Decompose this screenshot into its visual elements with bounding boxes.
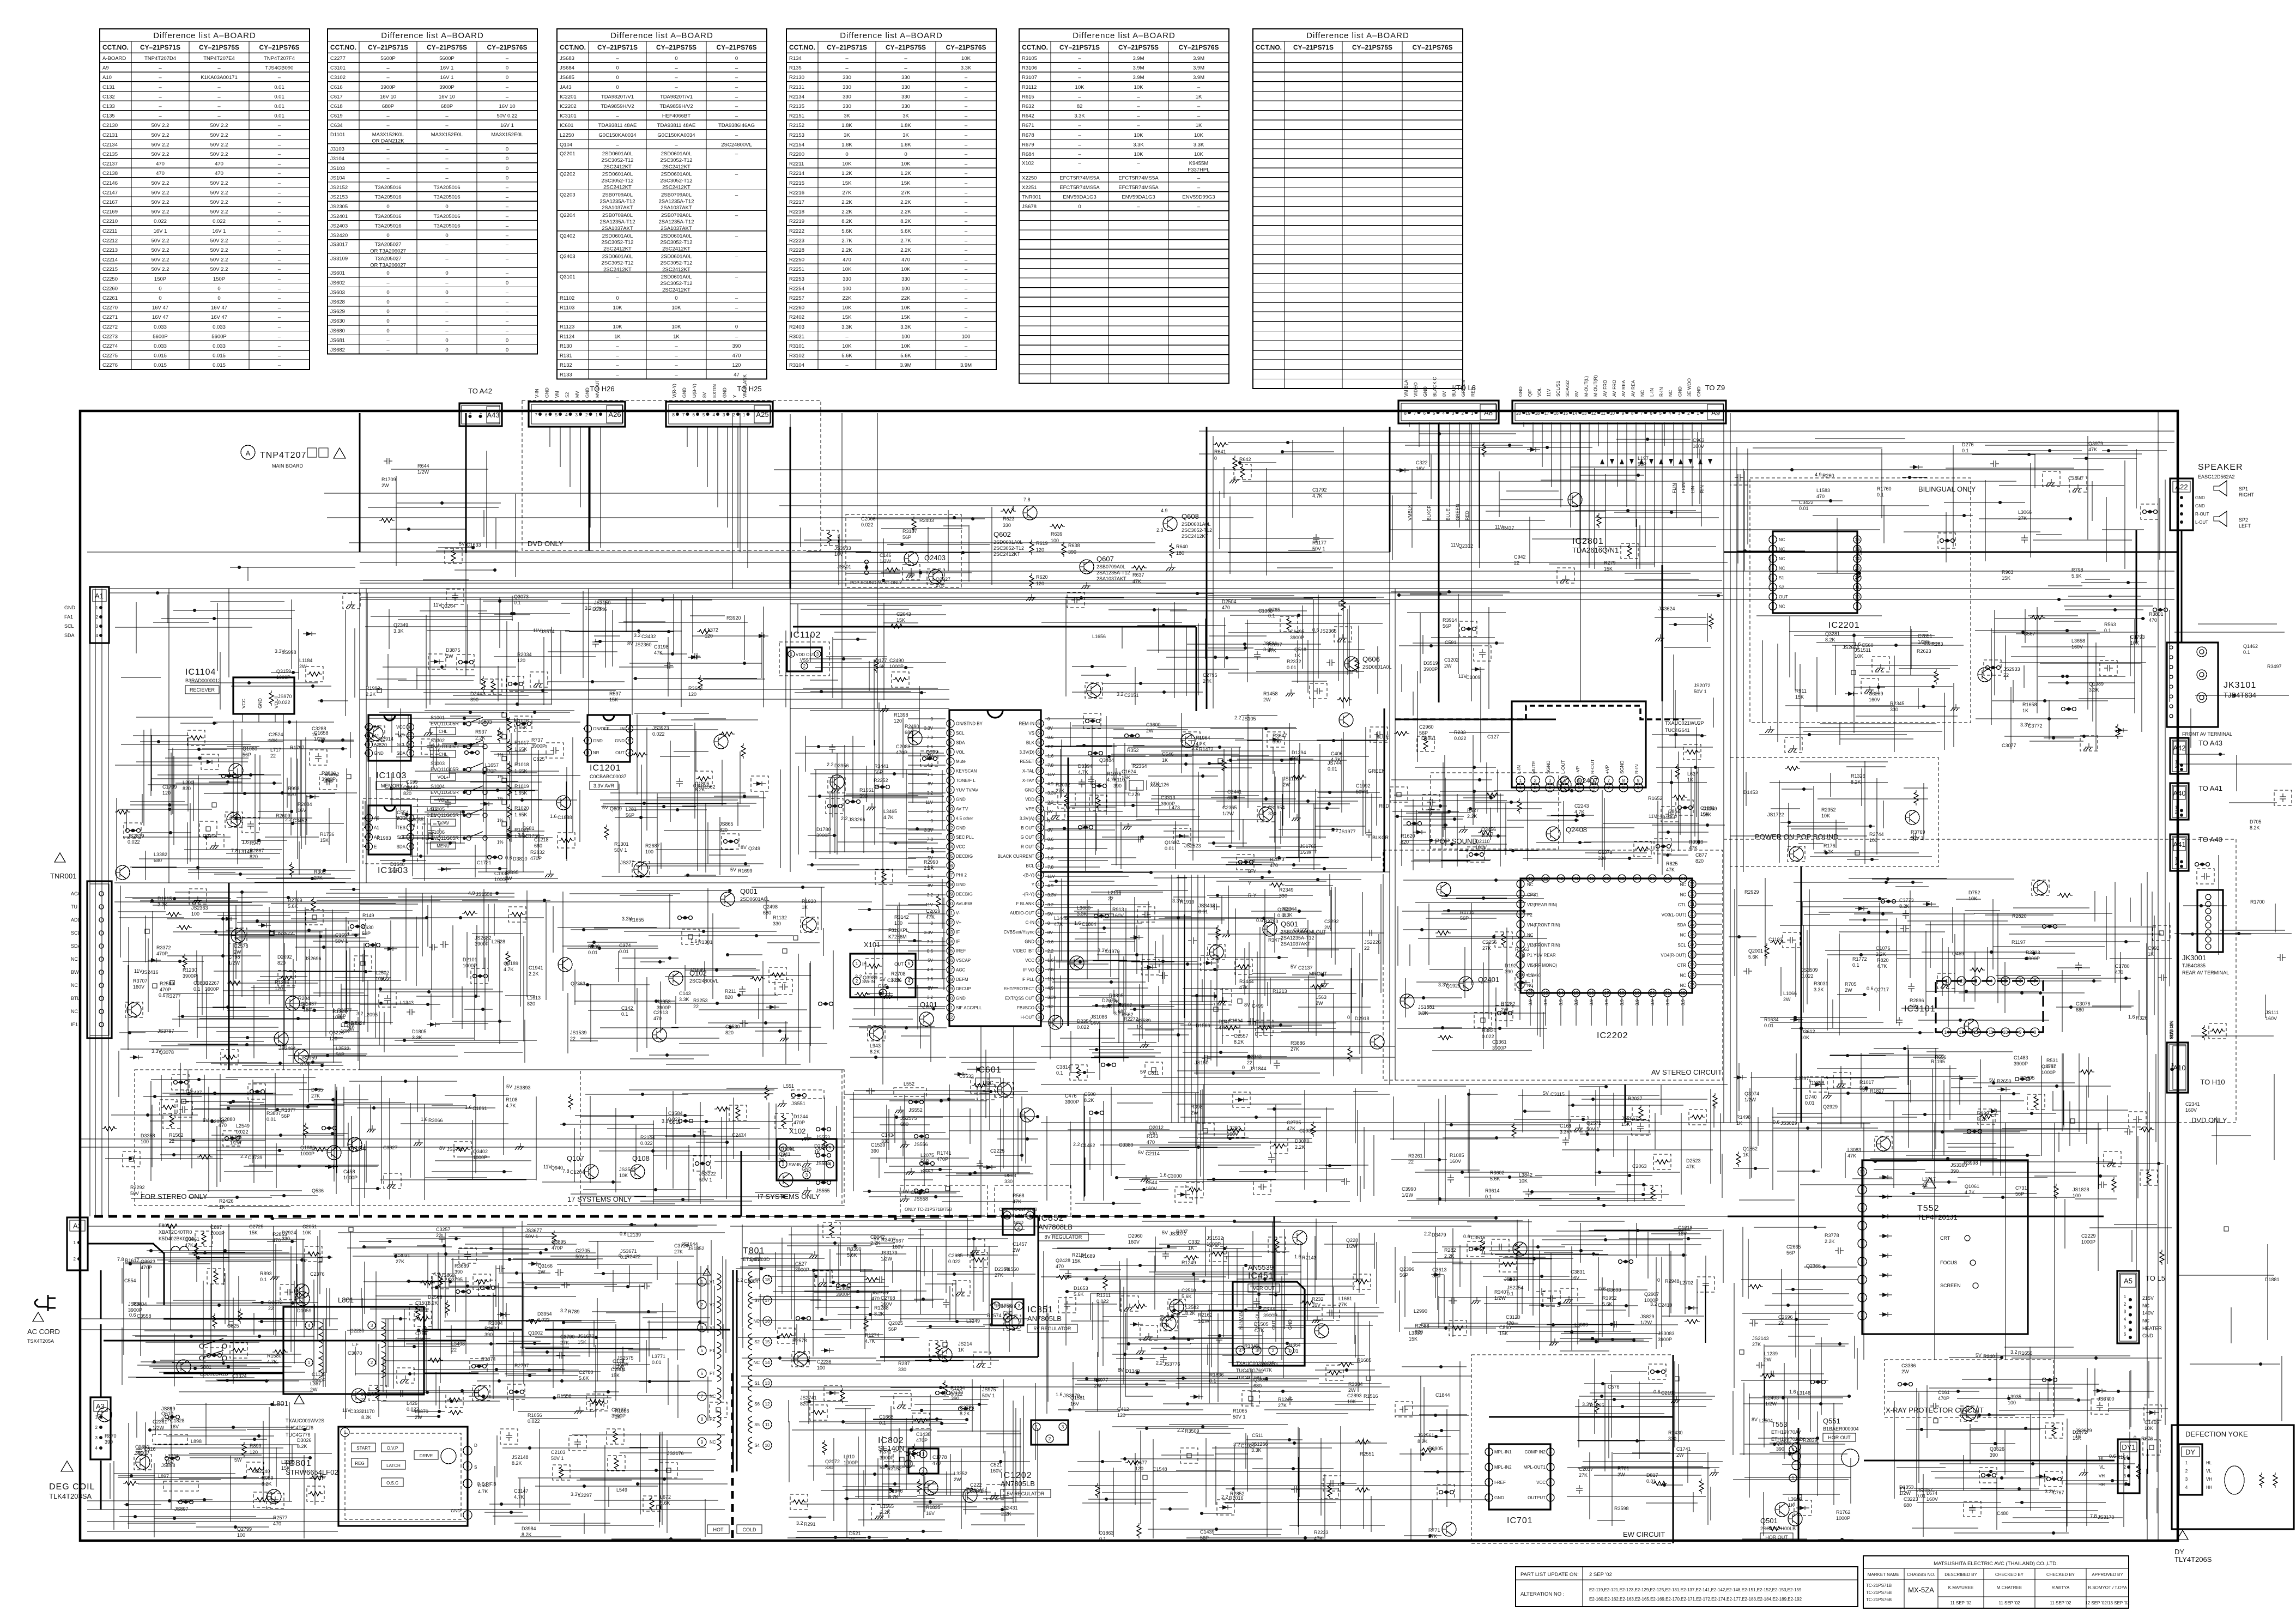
svg-text:S5: S5: [754, 1422, 760, 1427]
svg-text:1: 1: [1488, 1450, 1491, 1455]
svg-text:VI2(REAR RIN): VI2(REAR RIN): [1527, 902, 1558, 907]
svg-text:9: 9: [1637, 778, 1640, 783]
svg-text:R3187: R3187: [902, 529, 917, 534]
svg-text:JS1681: JS1681: [1418, 1004, 1435, 1010]
capacitor C2712: [1326, 659, 1335, 666]
svg-text:Q2203: Q2203: [560, 192, 575, 198]
diode L306: [1845, 692, 1858, 696]
svg-text:DECBIG: DECBIG: [956, 892, 973, 896]
junction dots: [1067, 1221, 1347, 1410]
svg-text:C2213: C2213: [102, 247, 118, 253]
svg-text:Q518: Q518: [1294, 647, 1306, 652]
svg-text:C132: C132: [102, 94, 115, 100]
svg-text:56P: 56P: [1400, 1272, 1408, 1278]
svg-text:0.022: 0.022: [861, 522, 874, 528]
svg-text:R825: R825: [1666, 861, 1678, 866]
svg-text:22: 22: [1681, 991, 1686, 996]
wire: [1041, 1122, 2174, 1123]
wire: [80, 1318, 338, 1319]
dashed outline: [1270, 1138, 1288, 1154]
svg-text:JS953: JS953: [657, 999, 671, 1004]
wire: [1068, 1471, 1471, 1472]
svg-text:27K: 27K: [674, 1249, 683, 1255]
svg-text:7.8: 7.8: [927, 837, 934, 842]
transistor Q435: [908, 731, 922, 745]
svg-text:R737: R737: [531, 737, 543, 743]
svg-text:TUC4G641: TUC4G641: [1665, 728, 1690, 733]
svg-text:2SC2412KT: 2SC2412KT: [603, 246, 632, 252]
wire: [908, 848, 946, 849]
svg-text:47K: 47K: [1239, 985, 1248, 990]
transistor Q905: [1568, 493, 1582, 507]
svg-text:CY–21PS76S: CY–21PS76S: [716, 44, 756, 51]
svg-text:R1177: R1177: [1312, 540, 1326, 546]
svg-text:JS628: JS628: [330, 299, 345, 305]
svg-text:16V 1: 16V 1: [440, 75, 454, 81]
svg-text:1: 1: [467, 1449, 469, 1453]
wire: [1682, 997, 1683, 1026]
diode C844: [2093, 1389, 2106, 1393]
svg-text:0.01: 0.01: [1198, 909, 1208, 914]
capacitor L2986: [866, 1088, 875, 1094]
svg-text:GREEN: GREEN: [1368, 768, 1385, 774]
resistor L1217: [741, 743, 746, 759]
svg-text:50V 2.2: 50V 2.2: [210, 180, 228, 186]
svg-text:5V: 5V: [1543, 1090, 1549, 1096]
svg-text:C2365: C2365: [1222, 805, 1237, 810]
svg-text:27K: 27K: [560, 1340, 569, 1346]
svg-text:8: 8: [701, 1417, 704, 1422]
svg-text:330: 330: [1004, 1179, 1013, 1184]
wire: [697, 427, 698, 467]
svg-text:2W: 2W: [1283, 782, 1291, 787]
svg-text:2: 2: [1960, 979, 1963, 984]
svg-text:–: –: [735, 274, 738, 280]
svg-text:8: 8: [1404, 411, 1407, 416]
transistor Q203: [924, 1481, 938, 1495]
svg-text:2.2K: 2.2K: [841, 247, 852, 253]
svg-text:–: –: [278, 343, 281, 349]
svg-text:EFCT5R74MS5A: EFCT5R74MS5A: [1059, 175, 1100, 181]
transistor Q472: [98, 1408, 112, 1422]
svg-text:JS214: JS214: [958, 1341, 972, 1347]
svg-text:VL: VL: [2206, 1469, 2212, 1474]
svg-text:K.MAYUREE: K.MAYUREE: [1948, 1585, 1974, 1590]
svg-text:4.5 other: 4.5 other: [956, 816, 973, 821]
svg-text:10: 10: [2003, 1030, 2008, 1035]
svg-text:CHL: CHL: [439, 729, 448, 734]
svg-text:R2588: R2588: [1415, 1323, 1429, 1329]
wire: [1045, 839, 1144, 840]
transistor Q762: [1049, 1015, 1063, 1029]
svg-text:C222: C222: [970, 1482, 982, 1488]
svg-text:19: 19: [1525, 411, 1530, 416]
dashed outline: [207, 1269, 225, 1284]
svg-text:TDA2616Q/N1: TDA2616Q/N1: [1572, 546, 1619, 554]
capacitor R3526: [641, 1283, 650, 1289]
svg-text:PHI 2: PHI 2: [956, 873, 967, 878]
svg-text:50V 1: 50V 1: [1911, 835, 1924, 841]
junction dots: [1755, 1049, 2057, 1197]
svg-text:R3614: R3614: [1485, 1188, 1500, 1193]
svg-text:1.6: 1.6: [1047, 754, 1054, 759]
dashed outline: [1253, 1179, 1271, 1195]
jumper C842: [837, 1284, 851, 1288]
svg-text:0.1: 0.1: [514, 600, 521, 605]
svg-text:AGC: AGC: [956, 967, 966, 972]
wire: [1697, 954, 1722, 955]
svg-text:16: 16: [1589, 991, 1594, 996]
svg-text:R2349: R2349: [1279, 887, 1294, 893]
svg-text:C142: C142: [621, 1005, 633, 1011]
dashed outline: [1395, 1402, 1413, 1417]
wire: [1449, 422, 1450, 507]
svg-text:3.9: 3.9: [1589, 999, 1594, 1005]
svg-text:C2578: C2578: [234, 943, 249, 949]
svg-text:R2820: R2820: [2012, 913, 2027, 919]
svg-text:–: –: [965, 94, 968, 100]
capacitor JS2409: [1547, 1295, 1556, 1302]
svg-text:7.8: 7.8: [231, 848, 238, 853]
svg-text:2: 2: [1534, 778, 1537, 783]
wire: [360, 689, 949, 690]
svg-text:R642: R642: [1022, 113, 1034, 119]
dashed outline: [920, 751, 938, 766]
svg-text:ADD: ADD: [71, 917, 82, 923]
dashed outline: [2274, 790, 2292, 805]
svg-text:R164: R164: [2117, 1455, 2129, 1460]
svg-text:EFCT5R74MS5A: EFCT5R74MS5A: [1118, 185, 1159, 191]
junction dots: [1113, 1109, 1330, 1203]
svg-text:JS2072: JS2072: [1694, 683, 1711, 688]
svg-text:15K: 15K: [1499, 1331, 1508, 1336]
svg-text:2SB0709A0L: 2SB0709A0L: [661, 213, 692, 219]
svg-text:L200: L200: [183, 780, 193, 785]
wire: [1013, 1026, 1014, 1277]
wire: [506, 621, 507, 883]
junction dots: [1774, 1227, 1849, 1540]
svg-text:470P: 470P: [937, 1156, 948, 1162]
svg-text:3.3K: 3.3K: [1194, 142, 1204, 148]
svg-text:2SC3052-T12: 2SC3052-T12: [660, 240, 692, 246]
svg-text:2SA1037AKT: 2SA1037AKT: [661, 205, 692, 211]
junction dots: [1739, 879, 2126, 1033]
diode C2546: [438, 867, 451, 871]
svg-text:JS2363: JS2363: [191, 905, 208, 911]
dashed outline: [769, 967, 786, 983]
svg-text:A2: A2: [73, 1222, 82, 1230]
svg-text:GND: GND: [2195, 495, 2205, 500]
svg-text:6: 6: [545, 413, 548, 417]
wire: [1606, 997, 1607, 1026]
dashed outline: [1459, 621, 1477, 637]
svg-text:0.1: 0.1: [1268, 613, 1275, 619]
svg-text:C2913: C2913: [653, 1010, 668, 1015]
svg-text:C3422: C3422: [1799, 500, 1814, 505]
svg-text:R2211: R2211: [789, 161, 804, 167]
svg-text:4: 4: [2185, 1485, 2188, 1490]
ground: [1765, 726, 1774, 733]
svg-text:R3142: R3142: [894, 914, 909, 920]
svg-text:18: 18: [1620, 991, 1625, 996]
svg-text:3.3V: 3.3V: [1047, 995, 1057, 1000]
capacitor R2891: [1428, 806, 1435, 815]
svg-text:-VP: -VP: [1575, 766, 1580, 774]
svg-text:1.6: 1.6: [1160, 1172, 1167, 1178]
svg-text:Q3923: Q3923: [141, 1259, 155, 1264]
board id label TNP4T207: [241, 445, 346, 469]
svg-text:0.6: 0.6: [1047, 837, 1054, 842]
svg-text:3: 3: [1772, 556, 1774, 561]
svg-text:3.2: 3.2: [634, 633, 641, 638]
svg-text:C1076: C1076: [1876, 946, 1891, 951]
svg-text:L1613: L1613: [527, 995, 541, 1001]
svg-text:R1018: R1018: [514, 762, 529, 767]
svg-text:L1184: L1184: [299, 658, 312, 663]
capacitor C2431: [1287, 1396, 1293, 1405]
svg-text:Difference list A–BOARD: Difference list A–BOARD: [153, 31, 256, 40]
ground: [1140, 1041, 1149, 1048]
svg-text:2SA1235A-T12: 2SA1235A-T12: [600, 219, 635, 225]
wire: [1045, 978, 1119, 979]
transistor Q501 hor drive: [1760, 1502, 1796, 1541]
svg-text:C3070: C3070: [348, 1350, 362, 1356]
dashed outline: [2027, 1094, 2045, 1110]
svg-text:3.9M: 3.9M: [1132, 65, 1144, 71]
svg-text:B-Y: B-Y: [1248, 869, 1256, 874]
dashed outline: [558, 833, 575, 848]
svg-text:R1342: R1342: [1244, 1343, 1259, 1349]
svg-text:4: 4: [628, 750, 631, 755]
svg-text:JS557: JS557: [919, 1169, 934, 1174]
svg-text:JS105: JS105: [1242, 716, 1256, 722]
svg-text:2W: 2W: [538, 1269, 546, 1275]
svg-text:5: 5: [829, 1146, 832, 1150]
wire: [1045, 997, 1112, 998]
svg-text:–: –: [616, 56, 619, 62]
svg-text:R798: R798: [2071, 567, 2083, 573]
svg-text:R632: R632: [1022, 104, 1034, 110]
svg-text:L2502: L2502: [375, 970, 389, 975]
wire: [908, 857, 946, 858]
dashed outline: [1173, 828, 1191, 844]
svg-text:C1938: C1938: [494, 871, 509, 876]
svg-text:1: 1: [2171, 1063, 2174, 1068]
svg-text:120: 120: [732, 362, 741, 368]
svg-text:0: 0: [616, 295, 619, 301]
junction dots: [1446, 1218, 1688, 1342]
test point: [716, 1408, 720, 1412]
svg-text:1K: 1K: [1736, 1120, 1742, 1126]
svg-text:15: 15: [948, 854, 953, 859]
svg-text:CY–21PS71S: CY–21PS71S: [140, 44, 180, 51]
svg-text:16V: 16V: [1312, 1302, 1320, 1308]
svg-text:10K: 10K: [2144, 1426, 2153, 1431]
svg-text:1.6: 1.6: [440, 1276, 447, 1281]
svg-text:0.01: 0.01: [2046, 1064, 2056, 1069]
junction dots: [159, 722, 343, 878]
svg-text:X-TAL: X-TAL: [1022, 769, 1035, 774]
wire: [1045, 941, 1135, 942]
jumper C1178: [2043, 925, 2057, 929]
svg-text:R3807: R3807: [266, 1111, 281, 1116]
svg-text:R1983: R1983: [377, 835, 391, 841]
svg-text:2: 2: [371, 1360, 373, 1365]
svg-text:R-IN: R-IN: [1658, 387, 1664, 397]
svg-text:C992: C992: [2148, 946, 2160, 951]
svg-text:3.3V AVR: 3.3V AVR: [593, 783, 615, 789]
svg-text:–: –: [616, 274, 619, 280]
wire: [741, 1386, 1390, 1387]
svg-text:1/2W: 1/2W: [1300, 850, 1312, 855]
jumper R2280: [875, 785, 890, 789]
svg-text:1000P: 1000P: [312, 1378, 326, 1383]
svg-text:R2215: R2215: [789, 180, 804, 186]
svg-text:60: 60: [1038, 759, 1043, 764]
svg-text:R1656: R1656: [2018, 1350, 2033, 1356]
wire: [1471, 423, 1472, 701]
dashed outline: [893, 1452, 911, 1467]
dashed outline: [1872, 657, 1889, 672]
wire: [677, 426, 678, 427]
svg-text:3.2: 3.2: [927, 995, 934, 1000]
svg-text:–: –: [159, 94, 162, 100]
svg-text:CHL: CHL: [439, 752, 448, 757]
wire: [542, 1088, 842, 1204]
svg-text:11V: 11V: [925, 902, 933, 907]
svg-text:3900P: 3900P: [475, 941, 489, 947]
resistor JS111: [864, 1316, 868, 1331]
svg-text:2 SEP '02: 2 SEP '02: [1589, 1572, 1612, 1578]
diode Q2926: [427, 1022, 440, 1027]
svg-text:TDA9820T/V1: TDA9820T/V1: [601, 94, 634, 100]
dashed outline: [1964, 1501, 1981, 1517]
wire: [109, 592, 1722, 593]
wire: [1390, 1085, 1722, 1205]
svg-text:BLUE: BLUE: [1376, 734, 1389, 740]
svg-text:1%: 1%: [497, 818, 504, 823]
svg-text:R233: R233: [1454, 730, 1466, 735]
svg-text:C3042: C3042: [870, 1234, 885, 1240]
svg-text:R3895: R3895: [2020, 1075, 2035, 1081]
wire: [1199, 431, 2174, 432]
wire: [1479, 422, 1480, 568]
svg-text:4: 4: [908, 979, 911, 984]
dashed outline: [207, 834, 224, 850]
test point: [1397, 792, 1401, 797]
svg-text:JS970: JS970: [278, 694, 292, 699]
svg-text:R1658: R1658: [2022, 702, 2037, 707]
svg-text:–: –: [735, 213, 738, 219]
svg-text:Q1061: Q1061: [1965, 1184, 1979, 1189]
svg-text:10K: 10K: [1821, 813, 1830, 819]
resistor JS1789: [1485, 793, 1500, 797]
svg-text:47: 47: [734, 372, 740, 378]
svg-text:0.1: 0.1: [193, 986, 201, 992]
svg-text:R771: R771: [1428, 1528, 1440, 1533]
ground: [831, 785, 840, 792]
junction dots: [1668, 596, 1718, 855]
svg-text:J3104: J3104: [330, 156, 344, 162]
jumper C2235: [481, 1286, 495, 1290]
svg-text:S2: S2: [565, 392, 570, 398]
svg-text:C1439: C1439: [1200, 1529, 1215, 1535]
dashed outline: [172, 1075, 189, 1090]
resistor R2498: [304, 1123, 308, 1138]
svg-text:470: 470: [932, 1461, 941, 1466]
svg-text:16V: 16V: [1571, 1275, 1579, 1281]
svg-text:0.1: 0.1: [879, 1420, 886, 1426]
wire: [707, 427, 708, 487]
svg-text:0.01: 0.01: [619, 949, 629, 954]
resistor R1320: [214, 1269, 218, 1284]
svg-text:390: 390: [732, 343, 741, 349]
svg-text:C2236: C2236: [817, 1359, 832, 1365]
wire: [114, 882, 949, 883]
svg-text:23: 23: [1690, 983, 1695, 987]
svg-text:7: 7: [701, 1394, 704, 1399]
svg-text:R679: R679: [1022, 142, 1034, 148]
svg-text:8.2K: 8.2K: [870, 1049, 880, 1055]
svg-text:56P: 56P: [1200, 1535, 1209, 1541]
svg-text:2.2: 2.2: [736, 1277, 743, 1283]
jumper R3140: [959, 1407, 973, 1411]
resistor L459: [123, 1481, 138, 1486]
resistor JS3990: [1137, 1523, 1141, 1538]
svg-text:C332: C332: [1188, 1239, 1200, 1245]
wire: [1171, 875, 1172, 1123]
test point: [1143, 1475, 1147, 1480]
svg-text:0.01: 0.01: [1646, 1478, 1656, 1484]
svg-text:R211: R211: [725, 989, 736, 994]
svg-text:–: –: [386, 156, 390, 162]
svg-text:C1756: C1756: [525, 833, 540, 839]
svg-text:Q2202: Q2202: [560, 172, 575, 178]
svg-text:–: –: [965, 257, 968, 263]
svg-text:Q1562: Q1562: [1743, 1146, 1758, 1152]
resistor R2768: [306, 1252, 321, 1256]
svg-text:390: 390: [105, 1439, 113, 1445]
svg-text:D2960: D2960: [1128, 1233, 1143, 1239]
svg-text:GND: GND: [682, 387, 687, 398]
svg-text:VH: VH: [2099, 1474, 2105, 1478]
svg-text:63: 63: [1038, 731, 1043, 736]
resistor C1515: [189, 736, 204, 740]
svg-text:5600P: 5600P: [211, 334, 226, 340]
svg-text:2SC3052-T12: 2SC3052-T12: [660, 178, 692, 184]
svg-text:820: 820: [250, 854, 258, 859]
svg-text:JS3266: JS3266: [849, 817, 865, 822]
svg-text:2.2: 2.2: [927, 809, 934, 814]
wire: [1697, 984, 1722, 985]
svg-text:2.2K: 2.2K: [870, 1240, 881, 1246]
svg-text:–: –: [278, 257, 281, 263]
dashed outline: [1370, 727, 1388, 742]
svg-text:0: 0: [1047, 717, 1050, 722]
jack JK3001 rear AV terminal: [2182, 890, 2229, 975]
dashed outline: [134, 1455, 152, 1470]
ground: [1123, 823, 1132, 830]
ground: [534, 680, 543, 687]
svg-text:3: 3: [467, 1464, 469, 1469]
svg-text:50V 2.2: 50V 2.2: [210, 152, 228, 157]
wire: [1697, 893, 1722, 894]
resistor C214: [474, 1280, 489, 1284]
transistor Q726: [1181, 734, 1195, 748]
wire: [590, 427, 591, 528]
svg-text:R OUT: R OUT: [1021, 845, 1034, 850]
svg-text:C3460: C3460: [2068, 476, 2083, 481]
